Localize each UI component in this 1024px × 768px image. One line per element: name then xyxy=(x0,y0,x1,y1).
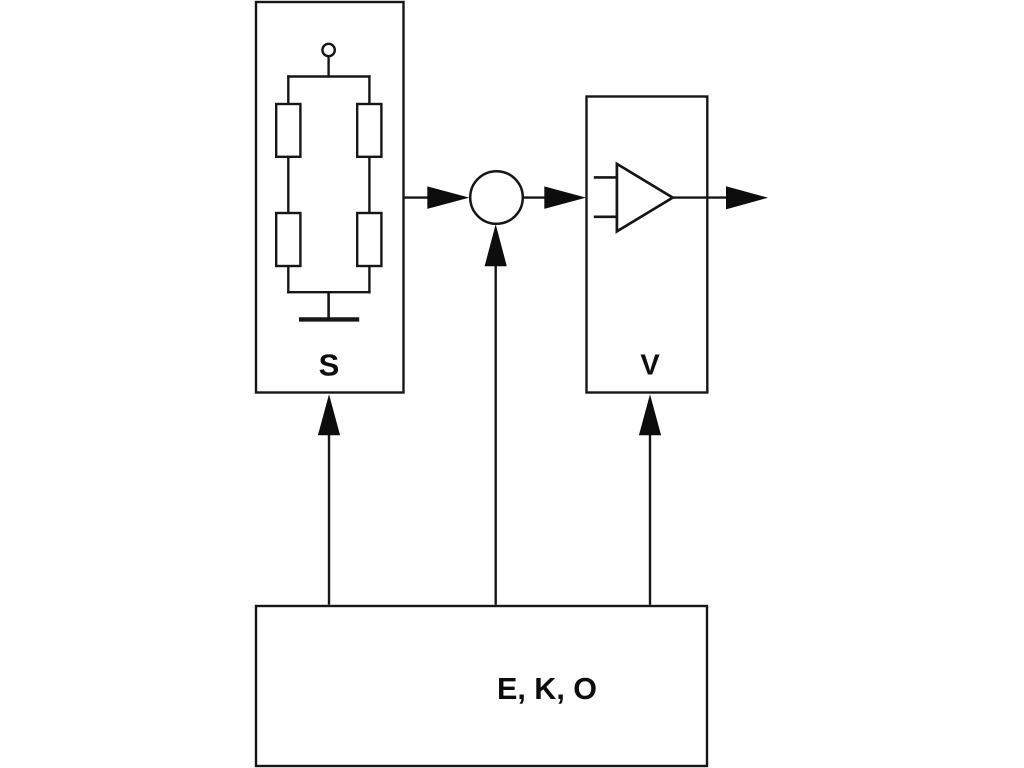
ground xyxy=(299,317,359,321)
block V (amplifier box) xyxy=(587,97,708,393)
resistor R3 (bridge lower-left) xyxy=(276,213,300,266)
wire right bottom branch xyxy=(368,266,370,293)
wire S output to summing junction xyxy=(404,196,431,198)
block S (sensor box) xyxy=(256,2,404,393)
wire E,K,O to S xyxy=(328,432,330,605)
arrowhead into V bottom xyxy=(639,394,661,435)
svg-text:S: S xyxy=(319,348,340,383)
wire amplifier output xyxy=(673,196,728,198)
wire bridge bottom bus xyxy=(287,291,370,293)
op-amp input pin - xyxy=(594,216,618,219)
arrowhead into summing junction bottom xyxy=(485,224,507,266)
wire E,K,O to summing junction xyxy=(495,263,497,605)
wire right middle branch xyxy=(368,157,370,213)
resistor R4 (bridge lower-right) xyxy=(357,213,381,266)
op-amp U1 (amplifier triangle) xyxy=(617,164,673,232)
arrowhead into amplifier block V xyxy=(544,186,586,209)
svg-text:V: V xyxy=(640,350,660,382)
arrowhead into summing junction xyxy=(427,186,469,209)
wire terminal to bridge top bus xyxy=(327,56,329,77)
resistor R1 (bridge upper-left) xyxy=(276,104,300,157)
svg-text:E, K, O: E, K, O xyxy=(497,672,597,706)
summing junction node xyxy=(470,171,523,224)
arrowhead into S bottom xyxy=(318,394,340,435)
wire left top branch xyxy=(287,75,289,104)
wire right top branch xyxy=(368,75,370,104)
wire bottom bus to ground xyxy=(327,292,330,318)
wire bridge top bus xyxy=(287,75,370,77)
block E,K,O (influence quantities box) xyxy=(256,606,707,766)
wire left bottom branch xyxy=(287,266,289,293)
wire summing junction to V xyxy=(523,196,548,198)
wire E,K,O to V xyxy=(649,432,651,605)
terminal node (supply terminal circle) xyxy=(322,44,334,56)
wire left middle branch xyxy=(287,157,289,213)
op-amp input pin + xyxy=(594,176,618,179)
arrowhead output xyxy=(726,186,768,209)
resistor R2 (bridge upper-right) xyxy=(357,104,381,157)
